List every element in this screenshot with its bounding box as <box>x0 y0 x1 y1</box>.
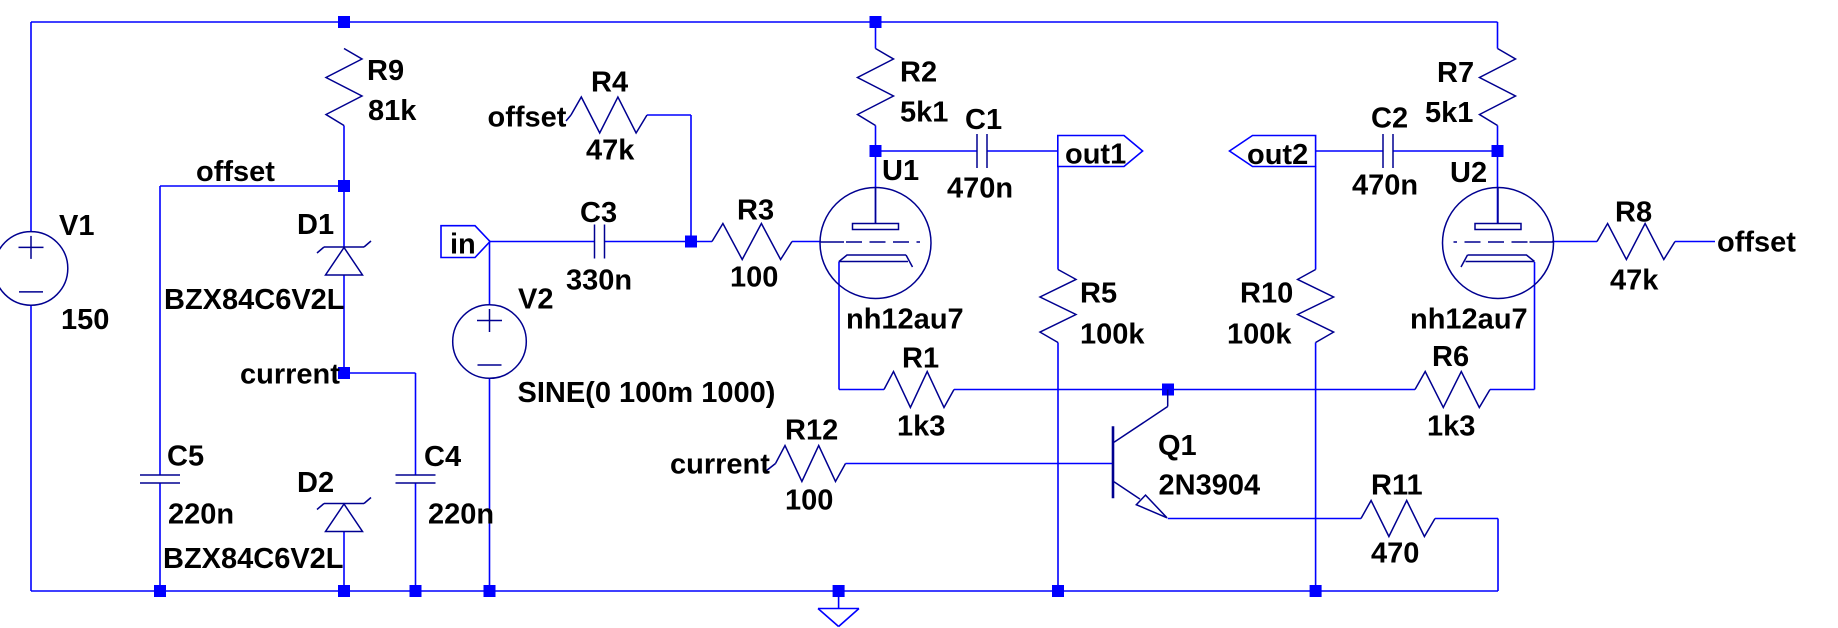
resistor R2 <box>858 49 894 126</box>
wire V2 top lead <box>489 242 491 306</box>
wire out2 down to R10 <box>1315 167 1317 270</box>
junction node 13 <box>833 585 845 597</box>
capacitor C5 <box>140 475 180 483</box>
svg-text:100: 100 <box>730 262 778 294</box>
wire U1 cathode lead <box>838 262 840 390</box>
wire C4 top lead <box>415 373 417 475</box>
svg-text:R12: R12 <box>785 415 838 447</box>
capacitor C4 <box>396 475 436 483</box>
voltage source V1 <box>0 232 68 306</box>
zener diode D2 <box>317 498 371 532</box>
svg-text:150: 150 <box>61 304 109 336</box>
resistor R5 <box>1040 270 1076 343</box>
wire R7 top lead <box>1497 22 1499 49</box>
wire in port to C3 <box>489 241 594 243</box>
svg-text:U1: U1 <box>882 155 919 187</box>
wire C4 bottom lead <box>415 483 417 591</box>
resistor R9 <box>326 49 362 126</box>
svg-text:100: 100 <box>785 485 833 517</box>
junction node 11 <box>410 585 422 597</box>
wire R6 to U2 cathode riser <box>1490 389 1535 391</box>
junction node 4 <box>870 145 882 157</box>
svg-text:C3: C3 <box>580 197 617 229</box>
svg-text:R5: R5 <box>1080 278 1117 310</box>
wire out1 down to R5 <box>1057 167 1059 270</box>
svg-text:C1: C1 <box>965 104 1002 136</box>
svg-text:2N3904: 2N3904 <box>1159 470 1261 502</box>
svg-text:offset: offset <box>196 156 275 188</box>
svg-text:BZX84C6V2L: BZX84C6V2L <box>164 284 345 316</box>
wire U2 grid to R8 <box>1552 241 1597 243</box>
wire R9 bottom to offset node <box>343 126 345 187</box>
svg-text:R7: R7 <box>1437 57 1474 89</box>
svg-text:in: in <box>450 229 476 261</box>
wire node A to R3 <box>691 241 712 243</box>
junction node 6 <box>685 236 697 248</box>
wire ground lead <box>838 591 840 609</box>
svg-text:current: current <box>670 449 770 481</box>
wire U2 plate lead <box>1497 151 1499 224</box>
svg-text:C2: C2 <box>1371 103 1408 135</box>
svg-text:100k: 100k <box>1227 319 1292 351</box>
svg-text:220n: 220n <box>168 499 234 531</box>
wire D1 to current node <box>343 275 345 373</box>
wire C3 to node A <box>605 241 692 243</box>
wire plate node to C1 <box>876 150 978 152</box>
svg-text:470n: 470n <box>947 173 1013 205</box>
port in <box>441 226 490 258</box>
svg-text:out2: out2 <box>1247 139 1308 171</box>
junction node 14 <box>1052 585 1064 597</box>
resistor R1 <box>884 372 954 408</box>
voltage source V2 <box>453 305 527 379</box>
svg-text:D2: D2 <box>297 467 334 499</box>
wire left rail lower (V1 bottom) <box>30 305 32 591</box>
junction node 7 <box>338 367 350 379</box>
resistor R11 <box>1361 501 1435 537</box>
capacitor C3 <box>595 225 605 259</box>
wire R8 to offset label <box>1675 241 1715 243</box>
resistor R7 <box>1480 49 1516 126</box>
wire R2 bottom lead <box>875 126 877 152</box>
junction node 8 <box>1162 384 1174 396</box>
junction node 2 <box>870 16 882 28</box>
junction node 9 <box>154 585 166 597</box>
resistor R4 <box>566 97 647 133</box>
svg-text:R6: R6 <box>1432 341 1469 373</box>
wire offset node to D1 <box>343 186 345 247</box>
svg-text:220n: 220n <box>428 499 494 531</box>
junction node 3 <box>338 180 350 192</box>
wire top rail <box>31 21 1498 23</box>
wire R7 bottom lead <box>1497 126 1499 152</box>
resistor R12 <box>766 446 846 482</box>
svg-text:current: current <box>240 359 340 391</box>
wire U1 cathode to R1 <box>839 389 884 391</box>
svg-text:330n: 330n <box>566 265 632 297</box>
port out2 <box>1230 136 1316 167</box>
triode U2 nh12au7 <box>1443 188 1554 299</box>
junction node 5 <box>1492 145 1504 157</box>
svg-text:C4: C4 <box>424 441 461 473</box>
svg-text:5k1: 5k1 <box>1425 97 1473 129</box>
wire R4 right lead <box>647 114 691 116</box>
triode U1 nh12au7 <box>820 188 931 299</box>
svg-text:470: 470 <box>1371 538 1419 570</box>
resistor R6 <box>1415 372 1490 408</box>
svg-text:R9: R9 <box>367 55 404 87</box>
svg-text:U2: U2 <box>1450 157 1487 189</box>
svg-text:nh12au7: nh12au7 <box>1410 304 1528 336</box>
transistor Q1 2N3904 <box>1113 390 1168 518</box>
port out1 <box>1058 136 1143 167</box>
wire current node to C4 branch <box>344 372 416 374</box>
svg-text:Q1: Q1 <box>1158 430 1197 462</box>
svg-text:V2: V2 <box>518 284 553 316</box>
wire left rail upper (V1 top) <box>30 22 32 232</box>
wire bottom rail <box>31 590 1498 592</box>
wire R10 to bottom rail <box>1315 343 1317 592</box>
resistor R8 <box>1597 224 1675 260</box>
svg-text:R10: R10 <box>1240 278 1293 310</box>
wire R1 to collector node <box>954 389 1415 391</box>
wire R4 down to node A <box>690 115 692 242</box>
svg-text:5k1: 5k1 <box>900 97 948 129</box>
svg-text:D1: D1 <box>297 209 334 241</box>
svg-text:R4: R4 <box>591 67 628 99</box>
junction node 1 <box>338 16 350 28</box>
svg-text:R8: R8 <box>1615 197 1652 229</box>
junction node 12 <box>484 585 496 597</box>
capacitor C2 <box>1383 134 1393 168</box>
wire D2 to bottom rail <box>343 531 345 591</box>
wire Q1 emitter to R11 <box>1168 518 1361 520</box>
svg-text:C5: C5 <box>167 441 204 473</box>
wire R2 top lead <box>875 22 877 49</box>
zener diode D1 <box>317 241 371 275</box>
wire offset node to C5 branch <box>160 185 344 187</box>
svg-text:100k: 100k <box>1080 319 1145 351</box>
wire R12 to Q1 base <box>846 463 1114 465</box>
svg-text:47k: 47k <box>586 135 635 167</box>
svg-text:offset: offset <box>488 102 567 134</box>
ground <box>818 609 859 627</box>
junction node 10 <box>338 585 350 597</box>
wire R3 to U1 grid <box>792 241 821 243</box>
wire U2 cathode riser <box>1534 262 1536 390</box>
wire C1 to out1 port <box>987 150 1058 152</box>
svg-text:offset: offset <box>1717 227 1796 259</box>
svg-text:1k3: 1k3 <box>1427 411 1475 443</box>
svg-text:out1: out1 <box>1065 139 1126 171</box>
svg-text:R1: R1 <box>902 343 939 375</box>
svg-text:V1: V1 <box>59 210 94 242</box>
wire U1 plate lead <box>875 151 877 224</box>
svg-text:R3: R3 <box>737 195 774 227</box>
svg-text:81k: 81k <box>368 95 417 127</box>
junction node 15 <box>1310 585 1322 597</box>
wire R11 right lead <box>1435 518 1498 520</box>
wire C2 to plate node U2 <box>1393 150 1498 152</box>
svg-text:1k3: 1k3 <box>897 411 945 443</box>
wire C5 top lead <box>159 186 161 475</box>
capacitor C1 <box>977 134 987 168</box>
wire C5 bottom lead <box>159 483 161 591</box>
svg-text:R2: R2 <box>900 57 937 89</box>
svg-text:BZX84C6V2L: BZX84C6V2L <box>163 543 344 575</box>
resistor R3 <box>712 224 792 260</box>
svg-text:nh12au7: nh12au7 <box>846 304 964 336</box>
svg-text:SINE(0 100m 1000): SINE(0 100m 1000) <box>518 377 776 409</box>
svg-text:R11: R11 <box>1371 470 1423 502</box>
svg-text:470n: 470n <box>1352 170 1418 202</box>
wire V2 bottom lead <box>489 378 491 591</box>
wire out2 to C2 <box>1316 150 1383 152</box>
svg-text:47k: 47k <box>1610 265 1659 297</box>
resistor R10 <box>1298 270 1334 343</box>
wire R11 down to bottom rail <box>1497 519 1499 592</box>
wire R5 to bottom rail <box>1057 343 1059 592</box>
